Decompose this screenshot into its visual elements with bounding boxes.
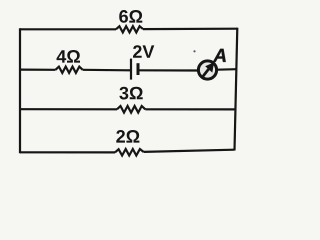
battery V1 short plate xyxy=(137,63,140,75)
wire: left rail to 3ohm resistor (third branch) xyxy=(20,108,117,110)
wire: 3ohm resistor to right rail xyxy=(145,108,235,110)
wire: bottom-left to 2ohm resistor (bottom branch) xyxy=(20,151,115,153)
wire: ammeter to right rail xyxy=(218,68,237,71)
wire: left vertical rail xyxy=(19,28,21,153)
wire: 6ohm resistor to top-right corner xyxy=(143,28,237,31)
label 3ohm value xyxy=(119,87,142,100)
speck artifact near ammeter xyxy=(193,50,195,52)
label 2V value xyxy=(133,45,154,58)
wire: battery to ammeter xyxy=(140,69,198,71)
label 2ohm value xyxy=(116,130,139,143)
label 4ohm value xyxy=(57,50,80,63)
label A ammeter xyxy=(213,49,226,62)
wire: 2ohm resistor to bottom-right corner xyxy=(144,150,235,152)
resistor R 4ohm zigzag xyxy=(56,67,83,73)
resistor R 3ohm zigzag xyxy=(117,106,145,113)
wire: right vertical rail xyxy=(235,28,238,151)
wire: 4ohm resistor to battery xyxy=(83,69,130,72)
resistor R 6ohm zigzag xyxy=(116,26,143,32)
battery V1 long plate xyxy=(130,59,132,80)
ammeter M1 needle arrow xyxy=(205,62,214,72)
wire: top-left to 6ohm resistor (top branch) xyxy=(20,28,116,30)
resistor R 2ohm zigzag xyxy=(115,149,144,156)
wire: left rail to 4ohm resistor (second branch) xyxy=(20,68,56,70)
ammeter M1 body circle xyxy=(198,61,216,79)
label 6ohm value xyxy=(119,10,142,23)
